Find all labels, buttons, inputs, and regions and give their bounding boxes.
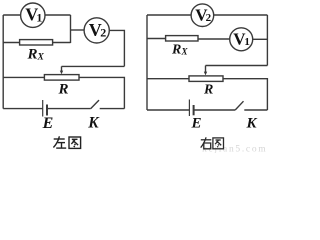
wire wiper (right): [206, 65, 268, 67]
wire Rx right: [53, 42, 71, 44]
svg-text:2: 2: [206, 12, 212, 24]
wire switch right (right circuit): [244, 109, 267, 111]
voltmeter V1 (right): [230, 28, 253, 51]
svg-text:X: X: [37, 53, 45, 63]
wire battery to switch: [47, 108, 91, 110]
svg-text:K: K: [87, 115, 100, 132]
rheostat R right: [189, 76, 223, 82]
label V1 (left meter): [25, 5, 42, 25]
svg-text:kejian5.com: kejian5.com: [202, 145, 267, 154]
label Rx (left): [27, 47, 45, 63]
resistor Rx right: [166, 36, 198, 41]
wire V1 right: [45, 14, 71, 16]
char tu: [69, 137, 81, 148]
wire Rx row left: [3, 42, 19, 44]
wire R row: [3, 76, 44, 78]
char you: [201, 137, 212, 149]
label V2 (left meter): [89, 20, 106, 40]
voltmeter V1: [21, 3, 45, 27]
svg-text:1: 1: [244, 36, 250, 48]
svg-text:E: E: [191, 116, 202, 132]
wire left bus: [2, 15, 4, 109]
wire to V2: [71, 29, 85, 31]
wire V2 right (right circuit): [214, 14, 268, 16]
svg-text:2: 2: [100, 26, 106, 40]
resistor Rx left: [20, 40, 53, 45]
battery E right: short plate: [193, 105, 195, 115]
wire top to V2: [147, 14, 191, 16]
wire Rx row (right circuit): [147, 38, 166, 40]
wiper arrow (right): [205, 66, 207, 73]
svg-text:1: 1: [36, 10, 42, 24]
svg-text:R: R: [58, 82, 69, 98]
switch K blade: [91, 100, 99, 109]
wire bottom to battery: [3, 108, 43, 110]
wire wiper: [62, 65, 125, 67]
wire top to V1: [3, 14, 20, 16]
switch K blade (right): [235, 101, 243, 110]
wire battery to switch (right): [194, 109, 236, 111]
voltmeter V2: [84, 18, 109, 43]
label V1 (right meter): [233, 29, 250, 48]
wire V1 to right bus: [253, 38, 268, 40]
wire R row (right): [147, 78, 189, 80]
battery E left: long plate: [42, 100, 44, 117]
char tu (right): [213, 138, 224, 149]
rheostat R left: [44, 75, 79, 81]
wire left bus (right circuit): [146, 15, 148, 110]
caption zuotu (left figure): [53, 136, 80, 148]
voltmeter V2 (right): [191, 4, 214, 27]
wire node vertical: [70, 15, 72, 43]
battery E right: long plate: [188, 100, 190, 117]
wire Rx to V1: [198, 38, 230, 40]
svg-text:R: R: [27, 47, 38, 63]
label Rx (right): [171, 43, 189, 58]
svg-text:E: E: [42, 115, 54, 132]
battery E left: short plate: [46, 105, 48, 116]
wire switch right: [100, 108, 125, 110]
label V2 (right meter): [195, 5, 211, 24]
wiper arrow: [61, 66, 63, 71]
svg-text:R: R: [203, 83, 213, 98]
svg-text:K: K: [246, 116, 258, 132]
svg-text:R: R: [171, 43, 181, 58]
wire bottom to battery (right): [147, 109, 189, 111]
wire right bus upper: [266, 15, 268, 66]
wire V2 right: [109, 30, 124, 66]
caption youtu (right figure): [201, 137, 224, 149]
svg-text:X: X: [181, 47, 189, 57]
char zuo: [53, 136, 66, 148]
